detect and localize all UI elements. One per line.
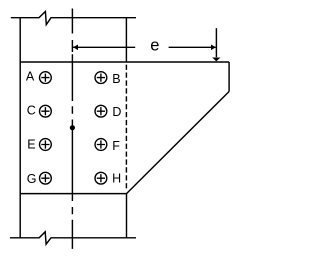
bolt A (40, 72, 52, 84)
plate bottom edge (20, 193, 127, 195)
bolt C (40, 105, 52, 117)
bolt B (95, 72, 107, 84)
svg-text:D: D (112, 105, 121, 119)
bolt E (40, 139, 52, 151)
vertical centerline segments (71, 9, 73, 249)
dimension line e (right part) (169, 46, 216, 48)
plate diagonal edge (127, 92, 230, 194)
svg-text:e: e (150, 37, 159, 55)
bolt F (95, 139, 107, 151)
plate right edge (228, 62, 230, 92)
bolt G (40, 172, 52, 184)
svg-text:G: G (27, 172, 37, 186)
bolt labels (26, 69, 122, 186)
top break line with zigzag (11, 12, 136, 25)
extension line at load point (215, 28, 217, 57)
right column edge (solid below plate) (126, 194, 128, 238)
bolt D (95, 105, 107, 117)
svg-text:C: C (27, 103, 36, 117)
svg-text:F: F (112, 139, 120, 153)
dimension line e (left part) (73, 46, 135, 48)
right column edge hidden behind plate (dashed) (125, 65, 127, 190)
bolts: circle with cross (40, 72, 107, 184)
svg-text:E: E (27, 138, 35, 152)
svg-text:H: H (112, 171, 121, 185)
bottom break line with zigzag (10, 232, 136, 244)
dimension arrowhead right (211, 45, 216, 51)
left column edge (19, 18, 21, 238)
dimension arrowhead left (73, 45, 78, 51)
svg-text:A: A (26, 69, 35, 83)
bolt H (95, 172, 107, 184)
centroid dot (70, 125, 75, 130)
right column edge (solid above plate) (125, 18, 127, 62)
plate top edge (20, 61, 229, 63)
svg-text:B: B (112, 72, 120, 86)
load arrowhead down (212, 58, 220, 62)
